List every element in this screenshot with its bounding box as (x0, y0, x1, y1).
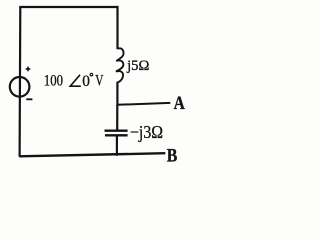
voltage source V1 (10, 67, 33, 100)
source value label 100 angle 0 V (44, 72, 104, 90)
inductor j5 ohm (116, 48, 149, 82)
wire node to capacitor (116, 105, 118, 130)
wire branch upper (116, 6, 118, 49)
wire to terminal A (117, 103, 170, 105)
svg-text:100: 100 (44, 72, 63, 89)
wire branch mid (116, 82, 118, 106)
svg-text:0: 0 (82, 73, 90, 90)
svg-text:V: V (95, 72, 104, 89)
capacitor -j3 ohm (105, 122, 164, 142)
wire left (19, 6, 22, 157)
svg-text:A: A (174, 93, 185, 114)
svg-text:−j3Ω: −j3Ω (130, 122, 163, 142)
svg-text:j5Ω: j5Ω (126, 58, 149, 74)
wire capacitor to bottom (116, 136, 118, 156)
wire bottom (19, 153, 165, 156)
svg-text:B: B (167, 145, 178, 166)
wire top (19, 6, 118, 8)
